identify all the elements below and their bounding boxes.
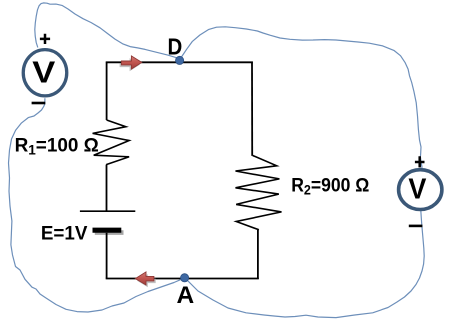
current arrow bottom (red, pointing left toward A) shadow xyxy=(137,274,156,287)
resistor R2 xyxy=(236,156,282,230)
battery E plate short (-) xyxy=(93,228,122,233)
voltmeter U2 minus terminal xyxy=(409,225,423,228)
voltmeter U1 plus terminal xyxy=(40,34,50,44)
battery E plate short shadow xyxy=(95,230,124,235)
voltmeter U1 minus terminal xyxy=(32,102,46,105)
svg-text:E=1V: E=1V xyxy=(41,224,88,245)
current arrow top (red, pointing right toward D) xyxy=(121,56,141,69)
wire left lower (battery to bottom-left corner) xyxy=(106,233,108,279)
wire top (D node wire from left branch to right branch) xyxy=(106,61,253,63)
node A junction dot xyxy=(181,274,189,282)
svg-text:A: A xyxy=(177,282,195,309)
voltmeter U1 circle (left) xyxy=(23,50,67,96)
wire left upper (top-left corner down to R1) xyxy=(106,62,108,121)
svg-text:R1=100 Ω: R1=100 Ω xyxy=(15,135,99,157)
svg-text:R2=900 Ω: R2=900 Ω xyxy=(291,174,369,198)
wire left middle (R1 to battery) xyxy=(106,165,108,212)
svg-text:V: V xyxy=(32,55,55,90)
voltmeter U2 circle (right) xyxy=(399,170,442,210)
wire right upper (R2 up to top-right corner) xyxy=(251,62,253,156)
resistor R1 xyxy=(93,120,130,165)
wire right lower (bottom-right corner up to R2) xyxy=(257,230,259,279)
current arrow top (red, pointing right toward D) shadow xyxy=(120,58,140,71)
svg-text:D: D xyxy=(168,33,183,59)
svg-text:V: V xyxy=(408,174,427,206)
current arrow bottom (red, pointing left toward A) xyxy=(135,272,154,285)
node D junction dot xyxy=(176,56,184,64)
wire bottom (A node wire) xyxy=(106,278,259,280)
battery E plate long (+) xyxy=(80,210,135,212)
voltmeter U2 plus terminal xyxy=(415,156,425,167)
